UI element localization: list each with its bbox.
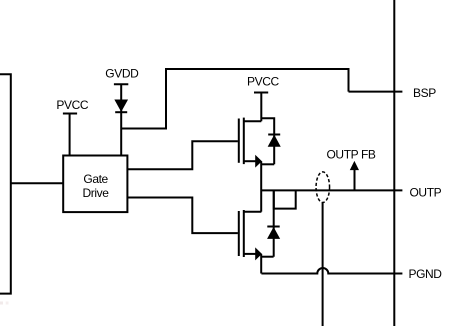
OUTP FB arrow stem xyxy=(354,169,356,191)
wire: PWM block to Gate Drive input xyxy=(11,182,63,184)
svg-text:PVCC: PVCC xyxy=(56,98,88,112)
transistor Q1 gate bar xyxy=(238,119,240,163)
svg-text:PGND: PGND xyxy=(409,267,443,281)
transistor Q2 source arrow xyxy=(256,249,262,260)
pin BSP wire/tick xyxy=(349,91,403,93)
transistor Q2 drain lead xyxy=(244,211,262,213)
wire: Q2 source to body diode anode xyxy=(261,256,273,258)
body diode D2 cathode bar xyxy=(268,134,280,136)
transistor Q2 gate bar xyxy=(238,211,240,256)
body diode of Q2: vertical wire xyxy=(273,190,275,256)
OUTP FB arrowhead xyxy=(351,162,359,170)
PVCC terminal (right) xyxy=(254,93,268,122)
body diode D2 triangle (pointing up) xyxy=(269,136,280,147)
bootstrap diode D1 (GVDD line, pointing down) xyxy=(115,100,127,111)
svg-text:Drive: Drive xyxy=(83,186,110,200)
wire: Q1 source to body diode anode xyxy=(261,163,274,165)
wire: Q2 source down to PGND rail xyxy=(260,254,262,274)
svg-text:OUTP FB: OUTP FB xyxy=(327,148,376,162)
diode D1 cathode bar xyxy=(115,111,127,113)
gate-drive block U1 xyxy=(63,156,127,213)
body diode D3 cathode bar xyxy=(267,226,279,228)
wire: gate drive lower output to Q2 gate xyxy=(127,198,237,234)
OUTP net wire and pin tick xyxy=(261,189,402,191)
transistor Q2 channel bar xyxy=(243,210,245,257)
svg-text:Gate: Gate xyxy=(83,172,108,186)
transistor Q1 drain lead xyxy=(244,120,261,122)
svg-text:OUTP: OUTP xyxy=(410,185,442,199)
wire: gate drive upper output to Q1 gate xyxy=(127,141,237,169)
chip right boundary xyxy=(393,0,395,326)
wire: switch node vertical (Q1 source to Q2 drain) xyxy=(260,161,262,212)
label: Gate Drive xyxy=(83,172,110,200)
body diode of Q1: connection wire xyxy=(261,118,274,164)
body diode D3 triangle (pointing up) xyxy=(268,228,279,238)
feedback tap ellipse (dashed) xyxy=(316,172,330,203)
stray mark at left edge xyxy=(0,302,3,305)
feedback line vertical to bottom xyxy=(322,203,324,327)
PVCC terminal (left) xyxy=(63,114,77,156)
transistor Q1 channel bar xyxy=(243,118,245,165)
wire: bootstrap net to BSP xyxy=(121,69,348,129)
sense loop rectangle below OUTP xyxy=(274,190,296,208)
svg-text:GVDD: GVDD xyxy=(105,67,139,81)
left block (PWM block edge) xyxy=(0,74,11,293)
svg-text:BSP: BSP xyxy=(413,86,436,100)
svg-text:PVCC: PVCC xyxy=(247,74,279,88)
transistor Q2 source lead xyxy=(244,253,259,255)
transistor Q1 source arrow xyxy=(256,156,262,167)
GVDD terminal xyxy=(114,84,128,155)
transistor Q1 source lead xyxy=(244,160,259,162)
PGND rail with hop over feedback line xyxy=(261,268,402,273)
